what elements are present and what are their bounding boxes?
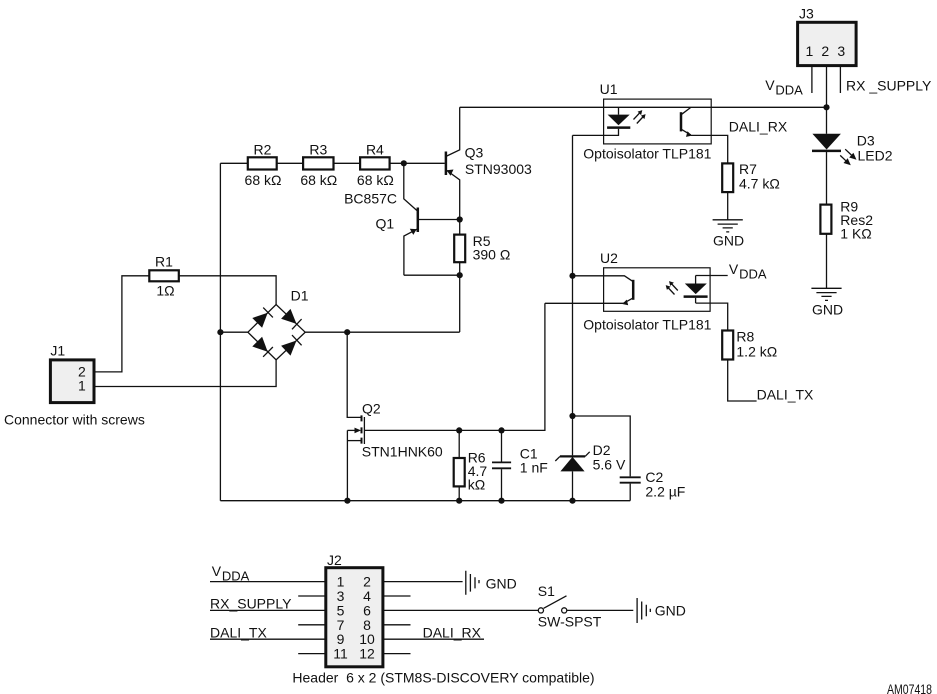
resistor R3 xyxy=(300,142,337,189)
ground GND below R7 xyxy=(713,220,744,249)
connector J1 xyxy=(4,343,145,428)
svg-text:R3: R3 xyxy=(309,142,327,158)
bridge rectifier D1 xyxy=(248,288,309,360)
svg-text:Optoisolator TLP181: Optoisolator TLP181 xyxy=(583,146,711,162)
svg-text:Optoisolator TLP181: Optoisolator TLP181 xyxy=(583,317,711,333)
wire J2 pin 3 stub xyxy=(298,595,326,597)
svg-text:DALI_RX: DALI_RX xyxy=(423,625,482,641)
junction node U2 collector tap xyxy=(569,273,575,279)
svg-text:1: 1 xyxy=(806,43,814,59)
wire J1 pin 1 to D1 bottom xyxy=(94,360,276,387)
svg-text:J2: J2 xyxy=(327,552,342,568)
capacitor C1 xyxy=(492,430,548,500)
svg-text:R8: R8 xyxy=(736,329,754,345)
svg-text:1.2 kΩ: 1.2 kΩ xyxy=(736,344,777,360)
svg-text:Header 6 x 2 (STM8S-DISCOVERY: Header 6 x 2 (STM8S-DISCOVERY compatible… xyxy=(292,670,594,686)
wire D3 to R9 xyxy=(826,152,828,205)
svg-text:68 kΩ: 68 kΩ xyxy=(300,172,337,188)
svg-text:LED2: LED2 xyxy=(858,148,893,164)
node DALI_RX label xyxy=(729,119,788,135)
svg-text:390 Ω: 390 Ω xyxy=(473,247,511,263)
resistor R7 xyxy=(722,161,780,192)
svg-text:Connector with screws: Connector with screws xyxy=(4,412,145,428)
svg-text:1 KΩ: 1 KΩ xyxy=(840,226,871,242)
optoisolator U1 xyxy=(583,81,711,162)
node RX_SUPPLY label at J2 xyxy=(210,596,292,612)
resistor R5 xyxy=(454,233,510,263)
wire R7 to ground xyxy=(727,192,729,219)
J3 pin 3 wire xyxy=(839,65,841,93)
svg-text:DALI_TX: DALI_TX xyxy=(210,624,267,640)
U1 LED xyxy=(607,115,630,128)
capacitor C2 xyxy=(620,469,686,501)
wire J2 pin 10 to DALI_RX xyxy=(383,638,484,640)
wire J2 pin 11 stub xyxy=(298,653,326,655)
J3 pin 1 wire xyxy=(811,65,813,93)
svg-text:12: 12 xyxy=(359,646,375,662)
svg-text:STN93003: STN93003 xyxy=(465,161,532,177)
svg-text:U1: U1 xyxy=(600,81,618,97)
wire S1 to ground xyxy=(567,609,634,611)
svg-text:5.6 V: 5.6 V xyxy=(593,457,626,473)
wire J2 pin 1 xyxy=(210,581,326,583)
svg-text:GND: GND xyxy=(812,302,843,318)
wire C2 top branch xyxy=(573,416,631,476)
svg-text:4.7 kΩ: 4.7 kΩ xyxy=(739,176,780,192)
svg-text:68 kΩ: 68 kΩ xyxy=(245,172,282,188)
junction node R5 bottom / Q1 emitter xyxy=(457,272,463,278)
wire D1 right to R5 bottom xyxy=(305,331,460,333)
svg-text:R4: R4 xyxy=(366,142,384,158)
resistor R8 xyxy=(722,329,777,360)
wire J2 pin 5 xyxy=(210,609,326,611)
svg-text:STN1HNK60: STN1HNK60 xyxy=(362,444,443,460)
wire J2 pin 12 stub xyxy=(383,653,411,655)
svg-text:11: 11 xyxy=(333,646,348,662)
wire J2 pin 7 stub xyxy=(298,624,326,626)
U2 LED xyxy=(684,276,708,304)
resistor R9 xyxy=(820,199,873,242)
junction node D1 left xyxy=(217,329,223,335)
wire R1 left to J1 pin 2 xyxy=(94,276,149,372)
svg-text:GND: GND xyxy=(655,603,686,619)
U2 emitter wire to Q2 gate xyxy=(545,302,624,304)
wire Q3 emitter node to R5 xyxy=(459,220,461,235)
switch S1 SW-SPST xyxy=(538,583,602,630)
transistor Q1 BC857C xyxy=(376,163,460,275)
wire R1 right to D1 top xyxy=(179,276,276,305)
junction node Q3 emitter / Q1 base / R5 xyxy=(457,216,463,222)
junction node D1 right / Q2 drain xyxy=(344,329,350,335)
svg-text:2.2 µF: 2.2 µF xyxy=(645,484,685,500)
connector J2 xyxy=(326,552,383,667)
svg-text:68 kΩ: 68 kΩ xyxy=(357,172,394,188)
wire R8 to DALI_TX xyxy=(728,360,757,402)
svg-text:D3: D3 xyxy=(857,133,875,149)
svg-text:DALI_RX: DALI_RX xyxy=(729,119,788,135)
junction node below J3 pin 2 xyxy=(823,104,829,110)
svg-text:SW-SPST: SW-SPST xyxy=(538,614,602,630)
U2 phototransistor collector wire xyxy=(573,276,633,281)
optoisolator U2 xyxy=(583,250,711,333)
svg-text:2: 2 xyxy=(821,43,829,59)
svg-text:R1: R1 xyxy=(155,254,173,270)
svg-text:RX _SUPPLY: RX _SUPPLY xyxy=(846,78,932,94)
junction node R6 bottom xyxy=(456,498,462,504)
wire Q2 drain vertical xyxy=(347,332,360,417)
wire top-left to R2 xyxy=(220,162,247,164)
U1 LED cathode wire to left vertical xyxy=(573,129,619,136)
ground GND below R9 xyxy=(811,288,843,317)
node RX_SUPPLY label at J3 xyxy=(846,78,932,94)
wire J2 pin 2 to ground xyxy=(383,581,463,583)
transistor Q3 STN93003 xyxy=(446,107,532,219)
wire R9 to ground xyxy=(826,234,828,288)
svg-text:Q3: Q3 xyxy=(465,145,484,161)
resistor R2 xyxy=(245,142,282,189)
U1 emitter wire to R7 xyxy=(691,135,728,163)
wire U2 LED cathode to R8 xyxy=(696,303,728,330)
connector J3 xyxy=(798,6,857,66)
junction node Q2 source on rail xyxy=(344,498,350,504)
svg-text:R2: R2 xyxy=(254,142,272,158)
svg-text:RX_SUPPLY: RX_SUPPLY xyxy=(210,596,292,612)
wire J2 pin 9 xyxy=(210,638,326,640)
zener diode D2 xyxy=(555,442,626,501)
svg-text:GND: GND xyxy=(713,233,744,249)
svg-text:Q1: Q1 xyxy=(376,216,395,232)
svg-text:V: V xyxy=(212,563,222,579)
wire J2 pin 8 stub xyxy=(383,624,411,626)
J3 pin 2 wire xyxy=(826,65,828,107)
ground GND at S1 xyxy=(637,598,686,623)
node DALI_TX label at J2 xyxy=(210,624,267,640)
wire Q2 gate line xyxy=(364,303,545,430)
node VDDA label at J3 xyxy=(765,77,803,98)
junction node C2 tap xyxy=(569,413,575,419)
wire J3 node down to D3 xyxy=(826,107,828,134)
svg-text:J1: J1 xyxy=(50,343,65,359)
U1 LED emission arrows xyxy=(634,110,646,123)
node DALI_RX label at J2 xyxy=(423,625,482,641)
svg-text:Q2: Q2 xyxy=(362,401,381,417)
node VDDA label at J2 xyxy=(212,563,250,584)
svg-text:D1: D1 xyxy=(291,288,309,304)
svg-text:kΩ: kΩ xyxy=(468,477,485,493)
wire left vertical rail xyxy=(219,163,221,500)
junction node C1 top xyxy=(498,427,504,433)
svg-text:S1: S1 xyxy=(538,583,555,599)
junction node R4/Q1/Q3 xyxy=(401,160,407,166)
svg-text:AM07418: AM07418 xyxy=(887,681,932,694)
resistor R4 xyxy=(357,142,394,189)
wire J2 pin 4 stub xyxy=(383,595,411,597)
wire U2 LED anode to VDDA xyxy=(696,275,728,277)
node VDDA label at U2 xyxy=(729,261,767,282)
junction node R6 top xyxy=(456,427,462,433)
U1 LED anode lead xyxy=(618,107,620,114)
svg-text:U2: U2 xyxy=(600,250,618,266)
node DALI_TX label xyxy=(757,387,814,403)
U1 phototransistor xyxy=(681,108,692,137)
wire R5 bottom xyxy=(459,262,461,332)
svg-text:1: 1 xyxy=(78,378,86,394)
svg-text:V: V xyxy=(729,261,739,277)
svg-text:DALI_TX: DALI_TX xyxy=(757,387,814,403)
junction node C1 bottom xyxy=(498,498,504,504)
wire R2 to R3 xyxy=(277,162,303,164)
transistor Q2 STN1HNK60 xyxy=(347,401,443,501)
resistor R1 xyxy=(149,254,179,299)
svg-text:V: V xyxy=(765,77,775,93)
svg-text:J3: J3 xyxy=(799,6,814,22)
wire R4 to Q3 base xyxy=(390,162,445,164)
svg-text:GND: GND xyxy=(486,576,517,592)
svg-text:3: 3 xyxy=(837,43,845,59)
resistor R6 xyxy=(454,430,488,500)
wire long vertical U1 cathode to D2 xyxy=(572,135,574,455)
svg-text:1Ω: 1Ω xyxy=(156,283,174,299)
wire D1 left to rail xyxy=(220,331,248,333)
label Header 6x2 xyxy=(292,670,594,686)
U2 phototransistor xyxy=(622,280,633,306)
label BC857C for Q1 xyxy=(344,191,397,207)
wire R3 to R4 xyxy=(334,162,361,164)
wire top rail Q3 collector to J3 node xyxy=(460,106,827,108)
svg-text:BC857C: BC857C xyxy=(344,191,397,207)
svg-text:DDA: DDA xyxy=(775,83,803,98)
junction node D2 anode on rail xyxy=(569,498,575,504)
ground GND at J2 pin 2 xyxy=(466,571,517,595)
label AM07418 xyxy=(887,681,932,694)
U2 LED emission arrows xyxy=(666,281,678,294)
wire J2 pin 6 to switch S1 xyxy=(383,609,538,611)
LED D3 xyxy=(812,133,893,166)
bottom rail wire xyxy=(220,500,630,502)
svg-text:DDA: DDA xyxy=(739,267,767,282)
svg-text:1 nF: 1 nF xyxy=(520,460,548,476)
